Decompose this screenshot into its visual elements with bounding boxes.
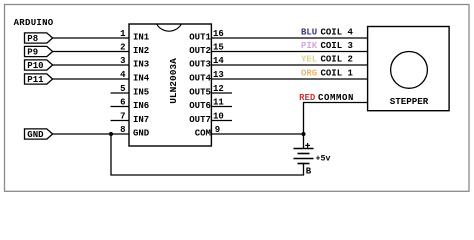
svg-text:IN1: IN1 — [133, 33, 150, 43]
svg-text:IN3: IN3 — [133, 60, 149, 70]
svg-text:YEL: YEL — [301, 55, 317, 65]
battery B plates — [294, 149, 314, 164]
svg-text:GND: GND — [27, 130, 44, 140]
pin 6 stub — [111, 106, 130, 108]
svg-text:1: 1 — [120, 29, 126, 39]
stepper motor M1 body — [368, 27, 450, 111]
pin number 3 — [120, 56, 125, 66]
label ARDUINO — [14, 18, 54, 28]
wire OUT2 to stepper coil 3 — [211, 51, 367, 53]
svg-text:8: 8 — [120, 125, 125, 135]
pin number 2 — [120, 43, 125, 53]
border frame — [5, 5, 470, 192]
svg-text:2: 2 — [120, 43, 125, 53]
net label COIL 4 — [321, 28, 354, 38]
svg-text:7: 7 — [120, 112, 125, 122]
svg-text:P10: P10 — [27, 61, 43, 71]
svg-text:OUT4: OUT4 — [189, 74, 211, 84]
svg-text:IN2: IN2 — [133, 46, 149, 56]
svg-text:OUT6: OUT6 — [189, 101, 211, 111]
pin 5 stub — [111, 92, 130, 94]
stepper motor rotor circle — [391, 52, 428, 89]
port tag P11 — [25, 74, 53, 85]
svg-text:OUT1: OUT1 — [189, 33, 211, 43]
pin 7 stub — [111, 120, 130, 122]
net label BLU — [301, 28, 317, 38]
junction GND node — [109, 132, 113, 136]
wire P8 to pin 1 — [53, 37, 129, 39]
pin label IN4 — [133, 74, 150, 84]
pin 12 stub — [211, 92, 232, 94]
svg-text:ULN2003A: ULN2003A — [168, 58, 179, 104]
pin number 13 — [213, 70, 224, 80]
pin number 9 — [215, 125, 220, 135]
pin 11 stub — [211, 106, 232, 108]
wire P9 to pin 2 — [53, 51, 129, 53]
svg-text:OUT7: OUT7 — [189, 115, 211, 125]
pin number 6 — [120, 98, 125, 108]
wire battery positive lead — [303, 134, 305, 149]
pin label OUT7 — [189, 115, 211, 125]
svg-text:STEPPER: STEPPER — [390, 96, 429, 107]
svg-text:GND: GND — [133, 129, 150, 139]
svg-text:OUT3: OUT3 — [189, 60, 211, 70]
wire OUT3 to stepper coil 2 — [211, 64, 367, 66]
pin label IN6 — [133, 101, 149, 111]
pin label COM — [195, 129, 211, 139]
svg-text:+5v: +5v — [316, 155, 331, 164]
svg-text:5: 5 — [120, 84, 125, 94]
wire common to stepper — [304, 103, 368, 135]
svg-text:ORG: ORG — [301, 69, 317, 79]
pin label IN5 — [133, 88, 149, 98]
svg-text:IN5: IN5 — [133, 88, 149, 98]
svg-text:P8: P8 — [27, 34, 38, 44]
pin label OUT3 — [189, 60, 211, 70]
net label COIL 1 — [321, 69, 354, 79]
pin number 5 — [120, 84, 125, 94]
pin number 11 — [213, 98, 224, 108]
pin number 15 — [213, 43, 224, 53]
pin number 12 — [213, 84, 224, 94]
pin label IN2 — [133, 46, 149, 56]
wire OUT4 to stepper coil 1 — [211, 78, 367, 80]
pin label OUT1 — [189, 33, 211, 43]
net label PIK — [301, 41, 318, 51]
pin number 8 — [120, 125, 125, 135]
net label COMMON — [318, 93, 354, 103]
net label COIL 3 — [321, 41, 353, 51]
pin 10 stub — [211, 120, 232, 122]
pin number 14 — [213, 56, 224, 66]
pin label OUT5 — [189, 88, 211, 98]
svg-text:COIL 3: COIL 3 — [321, 41, 353, 51]
svg-text:RED: RED — [299, 93, 316, 103]
pin number 4 — [120, 70, 126, 80]
junction common-battery node — [301, 132, 305, 136]
port tag GND — [25, 129, 53, 140]
IC U1 ULN2003A body — [129, 24, 211, 146]
wire P11 to pin 4 — [53, 78, 129, 80]
wire GND tag to pin 8 — [53, 133, 129, 135]
svg-text:P11: P11 — [27, 75, 44, 85]
svg-text:OUT2: OUT2 — [189, 46, 211, 56]
pin label OUT2 — [189, 46, 211, 56]
pin label OUT4 — [189, 74, 211, 84]
wire GND node down and to battery negative — [111, 134, 304, 175]
svg-text:IN6: IN6 — [133, 101, 149, 111]
svg-text:BLU: BLU — [301, 28, 317, 38]
pin label GND — [133, 129, 150, 139]
svg-text:IN7: IN7 — [133, 115, 149, 125]
pin number 1 — [120, 29, 126, 39]
net label RED — [299, 93, 316, 103]
wire P10 to pin 3 — [53, 64, 129, 66]
pin label IN1 — [133, 33, 150, 43]
port tag P8 — [25, 33, 53, 44]
pin number 16 — [213, 29, 224, 39]
svg-text:4: 4 — [120, 70, 126, 80]
svg-text:PIK: PIK — [301, 41, 318, 51]
net label YEL — [301, 55, 317, 65]
pin label IN3 — [133, 60, 149, 70]
svg-text:ARDUINO: ARDUINO — [14, 18, 54, 28]
svg-text:COIL 1: COIL 1 — [321, 69, 354, 79]
svg-text:COIL 2: COIL 2 — [321, 55, 353, 65]
svg-text:COMMON: COMMON — [318, 93, 354, 103]
label STEPPER — [390, 96, 429, 107]
svg-text:6: 6 — [120, 98, 125, 108]
value label ULN2003A — [168, 58, 179, 104]
pin label IN7 — [133, 115, 149, 125]
battery plus sign — [305, 143, 310, 148]
net label COIL 2 — [321, 55, 353, 65]
svg-text:B: B — [306, 167, 312, 177]
port tag P9 — [25, 46, 53, 57]
svg-text:COM: COM — [195, 129, 211, 139]
svg-text:3: 3 — [120, 56, 125, 66]
svg-text:OUT5: OUT5 — [189, 88, 211, 98]
wire OUT1 to stepper coil 4 — [211, 37, 367, 39]
pin label OUT6 — [189, 101, 211, 111]
net label ORG — [301, 69, 317, 79]
ref label B — [306, 167, 312, 177]
svg-text:IN4: IN4 — [133, 74, 150, 84]
value label +5v — [316, 155, 331, 164]
svg-text:P9: P9 — [27, 48, 38, 58]
pin number 7 — [120, 112, 125, 122]
port tag P10 — [25, 60, 53, 71]
wire COM to battery node — [211, 133, 303, 135]
pin number 10 — [213, 112, 224, 122]
svg-text:COIL 4: COIL 4 — [321, 28, 354, 38]
